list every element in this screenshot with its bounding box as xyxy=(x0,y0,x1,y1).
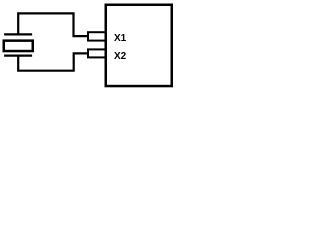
svg-text:X2: X2 xyxy=(114,51,127,62)
IC box U1 xyxy=(106,5,172,86)
svg-text:X1: X1 xyxy=(114,33,127,44)
crystal Y1 xyxy=(4,34,33,55)
wire xyxy=(18,53,88,70)
pin X2 xyxy=(88,49,106,57)
wire xyxy=(18,13,88,36)
pin X1 xyxy=(88,32,106,40)
